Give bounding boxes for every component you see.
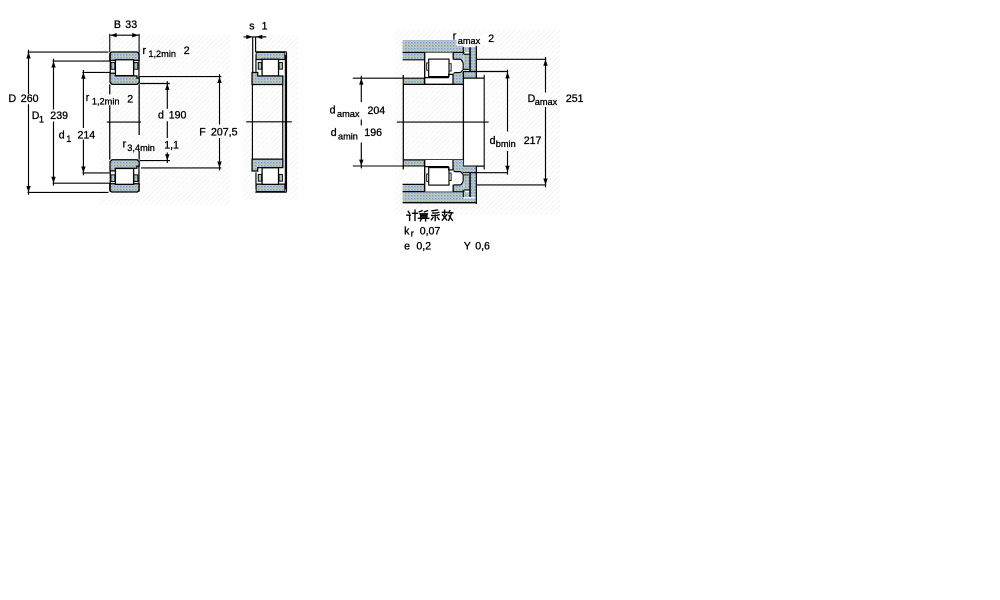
svg-text:196: 196 bbox=[364, 127, 382, 139]
node: B arrow left bbox=[110, 33, 116, 37]
wire: shoulder inner face vline bbox=[462, 63, 464, 70]
wire: housing bar bottom bottom border bbox=[403, 202, 477, 204]
inner ring top section with left flange bbox=[110, 73, 139, 84]
node: da arrow up bbox=[359, 78, 363, 84]
node: d1 arrow down bbox=[81, 167, 85, 173]
svg-text:190: 190 bbox=[169, 110, 187, 122]
wire: D extension bottom bbox=[28, 191, 109, 193]
svg-text:260: 260 bbox=[21, 93, 39, 105]
wire: shoulder fillet diagonal bbox=[461, 59, 463, 63]
wire: s dimension line right tail bbox=[256, 36, 266, 38]
node: white strip bottom bbox=[463, 173, 469, 174]
wire: outer ring left face upper bbox=[255, 60, 257, 72]
svg-text:d: d bbox=[330, 105, 336, 117]
node: D arrow up bbox=[26, 52, 30, 58]
wire: bearing left face bottom bbox=[424, 160, 426, 192]
wire: Da extension bottom bbox=[477, 184, 546, 186]
node: calculation factors CJK title bbox=[407, 210, 453, 221]
node: band bottom border with corner steps bbox=[255, 191, 286, 193]
node: db arrow up bbox=[505, 72, 509, 78]
shaft abutment ring top (left) bbox=[404, 79, 424, 84]
wire: d1 extension top bbox=[82, 71, 110, 73]
housing bar top bbox=[403, 40, 477, 53]
svg-text:33: 33 bbox=[125, 19, 137, 31]
cage top-left bbox=[111, 63, 115, 70]
wire: outer ring left face lower bbox=[255, 172, 257, 184]
wire: D dimension line bbox=[28, 50, 30, 95]
wire: F dimension line bbox=[219, 74, 221, 124]
wire: shoulder block top bbox=[463, 77, 484, 79]
svg-text:251: 251 bbox=[566, 93, 584, 105]
node: B arrow right bbox=[132, 33, 138, 37]
node: axis line right figure bbox=[397, 121, 489, 123]
wire: inner ring flange step bbox=[449, 74, 453, 77]
wire: bearing left face bbox=[424, 53, 426, 85]
cage bracket right (right figure bottom) bbox=[450, 173, 452, 180]
wire: shaft seat line top bbox=[403, 83, 463, 85]
node: white strip under shoulder bbox=[463, 70, 469, 71]
svg-text:r: r bbox=[411, 229, 414, 239]
svg-text:d: d bbox=[331, 127, 337, 139]
node: F arrow down bbox=[217, 162, 221, 168]
node: white slot bottom bbox=[465, 191, 470, 193]
node: axis line middle figure bbox=[246, 121, 292, 123]
cage bottom-right (side view) bbox=[279, 174, 282, 181]
svg-text:r: r bbox=[453, 31, 457, 43]
wire: slot top border bottom bbox=[464, 189, 470, 191]
svg-text:amax: amax bbox=[535, 97, 558, 107]
outer ring top band (side view) bbox=[256, 52, 285, 59]
wire: shoulder inner face vline bottom bbox=[462, 175, 464, 182]
cage bottom-right bbox=[134, 175, 138, 182]
wire: Da dimension line bbox=[545, 57, 547, 93]
wire: shoulder fillet diagonal bottom bbox=[461, 181, 463, 185]
node: da arrow down bbox=[359, 160, 363, 166]
wire: shoulder block left face bbox=[462, 72, 464, 167]
svg-text:e: e bbox=[404, 240, 410, 252]
inner ring bottom band (side view) bbox=[252, 159, 283, 171]
node: d arrow up bbox=[165, 84, 169, 90]
roller bottom (side view) bbox=[262, 168, 278, 185]
node: faint drawing-area hatch background right bbox=[395, 30, 560, 215]
wire: shoulder face top edge bottom bbox=[454, 184, 461, 186]
wire: F extension bottom bbox=[141, 167, 221, 169]
svg-text:s: s bbox=[249, 20, 254, 32]
wire: d extension bottom bbox=[140, 160, 170, 162]
svg-text:D: D bbox=[9, 93, 17, 105]
wire: inner ring flange step bottom bbox=[449, 167, 453, 170]
svg-text:0,07: 0,07 bbox=[420, 225, 441, 237]
svg-text:d: d bbox=[59, 130, 65, 142]
svg-text:B: B bbox=[114, 19, 121, 31]
node: faint drawing-area hatch background middle bbox=[243, 35, 298, 200]
wire: slot bottom border bbox=[464, 53, 470, 55]
wire: D1 dimension line bbox=[53, 59, 55, 110]
node: F arrow up bbox=[217, 77, 221, 83]
node: D1 arrow up bbox=[51, 61, 55, 67]
inner ring bottom section with left flange bbox=[110, 160, 139, 171]
node: d1 arrow up bbox=[81, 72, 85, 78]
svg-text:204: 204 bbox=[368, 105, 386, 117]
outer ring top section bbox=[110, 52, 139, 60]
wire: band bottom hline and db extension bottom bbox=[463, 172, 508, 174]
svg-text:k: k bbox=[404, 225, 410, 237]
wire: inner ring band bottom edge bbox=[425, 166, 449, 168]
housing shoulder left strip bbox=[403, 53, 425, 59]
node: d arrow down bbox=[165, 154, 169, 160]
wire: abutment ring top border + da extension top bbox=[353, 77, 425, 79]
wire: d dimension line bbox=[166, 81, 168, 109]
shaft shoulder block bbox=[463, 78, 484, 167]
svg-text:Y: Y bbox=[464, 240, 471, 252]
wire: inner ring flange right face bottom bbox=[452, 160, 454, 170]
wire: shoulder face bottom edge bbox=[454, 58, 461, 60]
node: white groove in bar top bbox=[464, 46, 477, 47]
node: Da arrow up bbox=[543, 59, 547, 65]
wire: bulge top curve bottom (shaft fillet) bbox=[453, 170, 463, 174]
node: white slot bbox=[465, 52, 470, 54]
roller top (side view) bbox=[262, 59, 278, 76]
wire: abutment ring bottom border + da extension bottom bbox=[353, 165, 425, 167]
wire: outer ring far face line 2 bbox=[286, 52, 288, 191]
wire: bearing left edge top bbox=[109, 52, 111, 73]
wire: shaft shoulder band top hline and db extension bbox=[463, 71, 508, 73]
cage top-right (side view) bbox=[279, 62, 282, 69]
shaft shoulder fillet corner piece bbox=[453, 70, 463, 84]
svg-text:r: r bbox=[143, 45, 147, 57]
svg-text:d: d bbox=[490, 135, 496, 147]
bearing block (outlined white) bbox=[424, 53, 453, 85]
wire: bore side left bbox=[109, 84, 111, 94]
node: white groove in bar bottom bbox=[464, 197, 477, 198]
wire: assembly right edge bottom bbox=[475, 167, 477, 204]
svg-text:3,4min: 3,4min bbox=[127, 143, 155, 153]
roller (right figure bottom) bbox=[429, 168, 449, 186]
wire: F extension top bbox=[140, 76, 222, 78]
wire: assembly right edge bbox=[475, 40, 477, 77]
wire: B dimension line bbox=[110, 34, 138, 36]
wire: s extension line 1 bbox=[252, 37, 254, 73]
wire: bore side right bbox=[138, 84, 140, 135]
node: D arrow down bbox=[26, 186, 30, 192]
svg-text:217: 217 bbox=[524, 135, 542, 147]
cage top-left (side view) bbox=[258, 62, 261, 69]
wire: outer ring far face line 1 bbox=[284, 55, 286, 189]
svg-text:r: r bbox=[86, 92, 90, 104]
wire: outer ring right face bottom bbox=[452, 185, 454, 192]
wire: left strip bottom top border bbox=[403, 183, 425, 185]
svg-text:r: r bbox=[123, 139, 127, 151]
wire: assembly inner vline left of slot bbox=[462, 47, 464, 54]
svg-text:1,2min: 1,2min bbox=[92, 96, 120, 106]
wire: shoulder block bottom bbox=[463, 165, 484, 167]
wire: d1 dimension line bbox=[82, 70, 84, 128]
wire: B extension line left bbox=[109, 34, 111, 52]
right shoulder assembly bottom blue parts bbox=[454, 185, 464, 191]
svg-text:bmin: bmin bbox=[496, 139, 516, 149]
cage bracket left (right figure bottom) bbox=[427, 174, 429, 181]
wire: D1 extension top bbox=[53, 60, 110, 62]
wire: bearing left edge bottom bbox=[109, 171, 111, 192]
wire: bearing right edge bottom bbox=[138, 166, 140, 192]
wire: db dimension line bbox=[507, 70, 509, 132]
wire: outer ring right face bbox=[452, 53, 454, 60]
wire: shoulder block right face bbox=[483, 75, 485, 170]
wire: abutment ring right border top bbox=[423, 78, 425, 84]
svg-text:d: d bbox=[158, 110, 164, 122]
cage bottom-left bbox=[111, 175, 115, 182]
svg-text:207,5: 207,5 bbox=[211, 126, 238, 138]
wire: shaft seat line bottom bbox=[403, 159, 463, 161]
svg-text:214: 214 bbox=[78, 130, 96, 142]
cage bottom-left (side view) bbox=[258, 174, 261, 181]
wire: bore edge left bbox=[251, 84, 253, 159]
wire: thick relief vline bottom bbox=[469, 173, 471, 197]
outer ring bottom section bbox=[110, 184, 139, 192]
bearing block bottom bbox=[424, 160, 453, 192]
svg-text:1: 1 bbox=[262, 20, 268, 32]
node ramax label bbox=[457, 36, 484, 46]
svg-text:2: 2 bbox=[488, 33, 494, 45]
housing shoulder left strip bottom bbox=[403, 185, 425, 191]
wire: s extension line 2 bbox=[255, 37, 257, 52]
wire: bulge bottom curve (shaft fillet) bbox=[453, 70, 463, 74]
wire: d1 extension bottom bbox=[82, 172, 110, 174]
right shoulder assembly blue parts bbox=[454, 53, 464, 59]
cage bracket right (right figure top) bbox=[450, 64, 452, 71]
roller (right figure top) bbox=[429, 59, 449, 77]
wire: housing bar bottom top border bbox=[403, 191, 477, 193]
wire: D extension top bbox=[28, 51, 109, 53]
wire: D1 extension bottom bbox=[53, 182, 110, 184]
cage bracket left (right figure top) bbox=[427, 63, 429, 70]
svg-text:2: 2 bbox=[127, 94, 133, 106]
wire: da dimension line bbox=[360, 76, 362, 102]
node: faint drawing-area hatch background left bbox=[100, 35, 230, 205]
shaft abutment ring bottom (left) bbox=[404, 161, 424, 166]
svg-text:0,2: 0,2 bbox=[416, 240, 431, 252]
svg-text:amax: amax bbox=[337, 109, 360, 119]
svg-text:amax: amax bbox=[458, 36, 481, 46]
wire: B extension line right bbox=[138, 34, 140, 52]
roller top bbox=[115, 60, 133, 76]
outer ring bottom band (side view) bbox=[256, 184, 285, 191]
svg-text:amin: amin bbox=[338, 132, 358, 142]
wire: s dimension line left tail bbox=[244, 36, 267, 38]
node: axis line left figure bbox=[107, 121, 141, 123]
svg-text:2: 2 bbox=[184, 45, 190, 57]
wire: bore edge right bbox=[282, 84, 284, 159]
wire: housing bar top bottom border bbox=[403, 52, 477, 54]
svg-text:1: 1 bbox=[66, 134, 71, 144]
wire: abutment ring right border bottom bbox=[423, 160, 425, 166]
housing bar bottom bbox=[403, 192, 477, 202]
svg-text:239: 239 bbox=[50, 110, 68, 122]
node: s arrow right bbox=[246, 35, 252, 39]
wire: thick relief vline bbox=[469, 47, 471, 71]
wire: Da extension top bbox=[477, 58, 546, 60]
node: D1 arrow down bbox=[51, 177, 55, 183]
svg-text:1,2min: 1,2min bbox=[148, 49, 176, 59]
svg-text:1: 1 bbox=[39, 115, 44, 125]
wire: assembly inner vline left of slot bottom bbox=[462, 190, 464, 197]
wire: left strip bottom border bbox=[403, 59, 425, 61]
node: band top border with corner steps bbox=[255, 51, 286, 53]
node: s arrow left bbox=[256, 35, 262, 39]
node: Da arrow down bbox=[543, 179, 547, 185]
shaft left face bbox=[402, 75, 404, 169]
wire: bearing right edge top bbox=[138, 52, 140, 78]
shaft shoulder fillet corner piece bottom bbox=[453, 160, 463, 174]
node: db arrow down bbox=[505, 166, 509, 172]
cage top-right bbox=[134, 63, 138, 70]
inner ring top band (side view) bbox=[252, 73, 283, 85]
wire: shoulder step hline bbox=[463, 68, 469, 70]
svg-text:0,6: 0,6 bbox=[475, 240, 490, 252]
wire: shoulder step hline bottom bbox=[463, 174, 469, 176]
wire: inner ring band top bbox=[425, 77, 449, 79]
svg-text:1,1: 1,1 bbox=[164, 140, 179, 152]
wire: inner ring flange right face bbox=[452, 74, 454, 84]
roller bottom bbox=[115, 168, 133, 184]
svg-text:F: F bbox=[199, 126, 206, 138]
wire: d extension top bbox=[140, 83, 170, 85]
